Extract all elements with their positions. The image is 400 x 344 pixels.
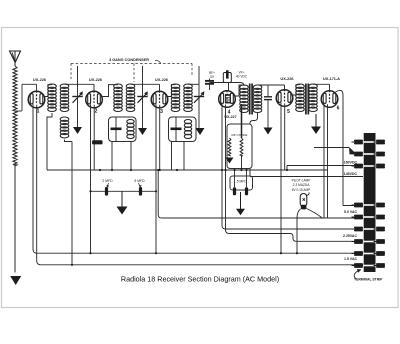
coil L1 primary (48, 84, 57, 112)
terminal lug row 3 (352, 164, 386, 169)
wire V3 filament leg B (159, 105, 161, 170)
pilot lamp bulb (300, 194, 307, 207)
wire cap feed right (246, 170, 248, 187)
tube V6 UX-171-A (321, 90, 338, 107)
capacitor C9 (245, 187, 248, 195)
wire V3 filament leg A (155, 104, 157, 253)
transformer T2 secondary (309, 84, 318, 112)
wire grid top link (210, 82, 241, 84)
arrow C5 to ground bus (196, 128, 205, 135)
wire V2 filament leg A (90, 104, 92, 253)
antenna (10, 51, 21, 66)
wire antenna tap (15, 110, 22, 112)
coil L4 secondary upper (126, 84, 135, 112)
junction 11 (176, 169, 178, 171)
terminal lug row 8 (352, 251, 386, 256)
wire V3 plate up-over to L5 (168, 85, 176, 97)
wire tap vertical to grid bus (21, 84, 23, 111)
junction 4 (245, 169, 247, 171)
wire V4 cathode leg B (226, 105, 230, 234)
wire V5 plate up-over to T2 (293, 85, 300, 95)
arrow into terminal strip (349, 147, 356, 155)
transformer T1 core (249, 84, 251, 115)
wire lamp to 5VAC line (307, 209, 323, 218)
transformer T2 primary (296, 84, 305, 112)
svg-text:UX-227: UX-227 (224, 115, 236, 119)
arrow C10 to ground (264, 128, 273, 135)
svg-text:160VDC: 160VDC (344, 161, 358, 165)
3-gang condenser dashed outline (71, 64, 192, 83)
terminal lug row 9 (352, 263, 386, 268)
terminal lug row 1 (352, 140, 386, 145)
capacitor 2 MFD (105, 187, 108, 196)
variable capacitor C5 (gang section 3) (194, 91, 205, 103)
junction 14 (71, 264, 73, 266)
choke winding right (241, 124, 243, 138)
wire junction vertical x72 (71, 142, 73, 265)
coil L4 secondary lower (127, 120, 134, 139)
svg-text:2: 2 (95, 109, 98, 115)
svg-text:UX-226: UX-226 (89, 77, 103, 82)
wire L2 lower bottom elbow (65, 140, 73, 142)
capacitor C8 (233, 187, 236, 195)
junction 6 (159, 169, 161, 171)
junction 16 (286, 169, 288, 171)
svg-text:2-3 MAZDA: 2-3 MAZDA (293, 183, 311, 187)
wire L1 bottom to filament bus (47, 113, 52, 170)
coil L6 secondary lower (184, 120, 191, 139)
svg-text:3: 3 (160, 109, 163, 115)
filament bus wire (47, 169, 328, 171)
svg-text:UX-226: UX-226 (33, 77, 47, 82)
wire 5.0 VAC line (162, 217, 363, 219)
svg-text:PILOT LAMP: PILOT LAMP (292, 179, 311, 183)
variable capacitor C1 (gang section 1) (72, 91, 83, 103)
wire grid feed tube 1 (22, 83, 37, 85)
wire V6 filament leg A (323, 104, 325, 218)
svg-text:5.0 VAC: 5.0 VAC (344, 210, 357, 214)
junction 8 (111, 169, 113, 171)
capacitor 5 MFD (139, 187, 142, 196)
coil L3 primary (114, 84, 123, 112)
wire stage2 box left to bus (111, 142, 113, 171)
terminal lug row 2 (352, 152, 386, 157)
wire stage3 box right to bus (183, 142, 185, 171)
arrow T2 tap to ground (311, 114, 321, 134)
arrow choke left to ground (226, 158, 234, 164)
wire L6 top to gang section 3 (188, 83, 199, 85)
wire V4 heater to choke (241, 104, 243, 124)
wire V5 filament leg A (280, 103, 282, 253)
wire 145VDC feed (250, 176, 363, 178)
svg-text:TERMINAL STRIP: TERMINAL STRIP (354, 278, 383, 282)
tube V2 UX-226 (86, 91, 103, 108)
svg-text:.5 MFD: .5 MFD (236, 179, 247, 183)
tube V5 UX-226 (276, 89, 293, 106)
wire L4 top to V3 grid (131, 83, 160, 85)
svg-text:2 MFD: 2 MFD (102, 179, 113, 183)
wire long bus D (41, 264, 363, 266)
svg-text:40 VDC: 40 VDC (236, 74, 248, 78)
junction 7 (157, 169, 159, 171)
wire C5 stem (198, 66, 200, 122)
svg-text:5: 5 (287, 109, 290, 115)
junction 13 (296, 252, 298, 254)
wire lamp down to bus (297, 209, 301, 253)
box tuned circuit stage 2 (109, 117, 137, 142)
choke winding left (228, 138, 231, 156)
wire L2 top to V2 grid (65, 83, 95, 85)
wire T1 secondary top to V5 grid (258, 84, 285, 86)
svg-text:2.25VAC: 2.25VAC (343, 234, 357, 238)
wire stage2 box right to bus (130, 142, 132, 171)
transformer T1 primary (240, 85, 249, 113)
svg-text:5 MFD: 5 MFD (134, 179, 145, 183)
wire 2.25VAC upper line (226, 228, 363, 230)
svg-text:RF CHOKE: RF CHOKE (232, 133, 248, 137)
tube V4 UX-227 detector (219, 90, 236, 107)
junction 10 (99, 169, 101, 171)
capacitor C10 coupling (267, 85, 269, 96)
svg-text:UX-171-A: UX-171-A (323, 77, 340, 81)
wire V1 filament leg B (37, 105, 41, 265)
variable capacitor C3 (gang section 2) (137, 91, 148, 103)
arrow caps to ground (236, 192, 245, 215)
svg-text:3 GANG CONDENSER: 3 GANG CONDENSER (109, 58, 149, 62)
wire antenna lead-in down (14, 165, 16, 273)
wire V4 cathode leg A (222, 104, 226, 229)
junction 12 (280, 252, 282, 254)
junction 2 (224, 169, 226, 171)
coil L6 secondary upper (184, 84, 193, 112)
arrow C1 to ground bus (73, 127, 82, 134)
arrow bypass ground (117, 191, 128, 214)
junction 15 (89, 252, 91, 254)
terminal lug row 6 (352, 227, 386, 232)
transformer T2 core (305, 84, 307, 115)
box .5 MFD capacitor (230, 176, 253, 190)
tube V3 UX-226 (151, 91, 168, 108)
wire cap feed left (234, 170, 236, 187)
wire caps common (235, 189, 247, 191)
antenna coil (long zigzag to ground) (13, 66, 17, 166)
wire stage3 box left to bus (171, 142, 173, 171)
svg-text:UX-226: UX-226 (155, 77, 169, 82)
capacitor C6 bypass (209, 79, 211, 81)
pilot lamp base (301, 205, 307, 210)
wire T2 secondary top to V6 grid (313, 83, 330, 85)
svg-text:Radiola 18 Receiver Section Di: Radiola 18 Receiver Section Diagram (AC … (121, 275, 279, 284)
capacitor C4 padding (175, 117, 177, 142)
terminal lug row 7 (352, 239, 386, 244)
wire V1 plate to coil L1 (45, 85, 52, 97)
terminal lug row 5 (352, 215, 386, 220)
wire V2 plate up-over to L3 (102, 85, 118, 97)
junction 3 (240, 169, 242, 171)
wire V5 filament leg B (284, 103, 286, 170)
wire V6 plate loop (336, 90, 344, 205)
wire C3 stem (142, 66, 144, 122)
svg-text:UX-226: UX-226 (280, 76, 294, 81)
wire 2.25VAC lower line (230, 234, 364, 242)
ground arrow (antenna return) (10, 276, 21, 285)
grid capacitor / leak C7 (223, 73, 231, 83)
wire V2 filament leg B (93, 105, 95, 170)
capacitor C2 padding (115, 117, 117, 142)
coil L2 secondary upper (60, 84, 69, 112)
svg-text:145VDC: 145VDC (344, 172, 358, 176)
coil L5 primary (171, 84, 180, 112)
wire V1 filament leg A (33, 104, 37, 253)
junction 5 (233, 169, 235, 171)
wire output plate line (343, 205, 363, 207)
junction 1 (221, 169, 223, 171)
wire bypass right to bus (155, 190, 157, 192)
svg-text:1.5 VAC: 1.5 VAC (344, 257, 357, 261)
arrow C3 to ground bus (138, 128, 147, 135)
wire V6 filament leg B (327, 104, 329, 218)
terminal lug row 4 (352, 203, 386, 208)
wire B+ arrow feed (314, 147, 349, 149)
arrow to terminal strip (354, 271, 358, 280)
wire C10 tick (267, 84, 269, 86)
svg-text:6: 6 (337, 106, 340, 112)
junction 9 (130, 169, 132, 171)
tube V1 UX-226 (28, 91, 45, 108)
terminal strip bar (364, 133, 376, 272)
box RF choke (227, 124, 252, 169)
wire 160VDC feed (287, 165, 363, 167)
svg-text:6V 0.15 AMP: 6V 0.15 AMP (292, 188, 311, 192)
coil L2 secondary lower (60, 117, 69, 138)
wire bypass cap line (91, 190, 157, 192)
wire bypass left to bus (89, 190, 91, 192)
transformer T1 secondary (253, 85, 262, 113)
wire V4 plate up-over to T1 (235, 85, 244, 96)
resistor R1 filament bias (92, 140, 103, 144)
wire T1 secondary bottom to 145VDC line (250, 113, 258, 177)
wire long bus C (37, 252, 363, 254)
box tuned circuit stage 3 (169, 117, 197, 142)
wire C1 stem (77, 66, 79, 122)
